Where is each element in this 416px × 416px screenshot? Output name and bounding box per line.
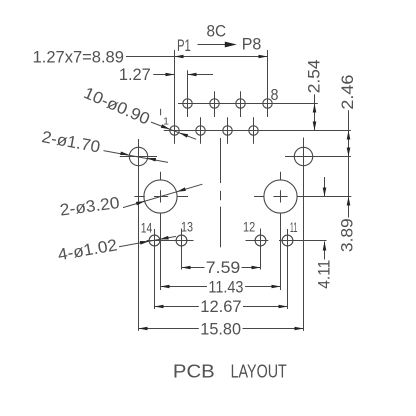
hole 14 vertical tick / ext for 12.67 — [154, 229, 156, 309]
left shield hole (Ø1.70) — [129, 147, 147, 165]
svg-text:11: 11 — [290, 219, 298, 235]
left Ø3.20 center mark — [160, 172, 162, 181]
pin P6 hole (Ø0.90) — [236, 99, 245, 108]
hole 12 vertical tick / ext for 7.59 — [260, 229, 262, 270]
dimension 7.59 — [182, 267, 205, 269]
dimension 12.67 — [155, 306, 199, 308]
hole 13 vertical tick / ext for 7.59 — [181, 229, 183, 270]
tick pin P5 — [227, 117, 229, 143]
ext line / tick pin P8 — [267, 50, 269, 117]
svg-text:3.89: 3.89 — [339, 218, 357, 252]
dimension 2.54 — [314, 94, 316, 130]
hole 14 (Ø1.02) — [149, 235, 160, 246]
pin P5 hole (Ø0.90) — [223, 126, 232, 135]
wire - bottom pin row centerline / ext for 2.46 — [164, 130, 351, 132]
left Ø1.70 vertical centerline / ext for 15.80 — [138, 139, 140, 331]
svg-text:15.80: 15.80 — [200, 320, 241, 338]
right Ø1.70 horizontal centerline / ext for 2.46-3.89 — [285, 156, 351, 158]
dimension 11.43 — [161, 286, 208, 288]
svg-text:8: 8 — [271, 87, 279, 104]
hole 12 (Ø1.02) — [255, 235, 266, 246]
leader 2-Ø1.70 to left shield hole — [104, 151, 169, 163]
pin P1 hole (Ø0.90) — [170, 126, 179, 135]
dimension 1.27 — [153, 74, 174, 76]
svg-text:2.46: 2.46 — [339, 75, 357, 110]
svg-text:PCB: PCB — [173, 361, 215, 382]
dimension 2.46 — [348, 110, 350, 156]
svg-text:1.27: 1.27 — [119, 66, 151, 84]
right Ø1.70 vertical centerline / ext for 15.80 — [303, 138, 305, 331]
right Ø3.20 center mark — [280, 172, 282, 181]
pin P7 hole (Ø0.90) — [249, 126, 258, 135]
dimension 1.27x7=8.89 — [126, 56, 268, 58]
right shield hole (Ø1.70) — [294, 147, 312, 165]
left Ø1.70 horizontal centerline — [120, 156, 157, 158]
svg-text:12: 12 — [243, 219, 255, 235]
svg-text:1: 1 — [163, 116, 169, 128]
leader 4-Ø1.02 to hole 14 — [119, 236, 176, 246]
svg-text:12.67: 12.67 — [200, 298, 241, 316]
svg-text:4.11: 4.11 — [315, 260, 333, 289]
leader 10-Ø0.90 to pin 1 — [151, 122, 196, 139]
svg-text:1.27x7=8.89: 1.27x7=8.89 — [33, 48, 124, 66]
svg-text:13: 13 — [181, 219, 193, 235]
pin P4 hole (Ø0.90) — [210, 99, 219, 108]
pin P2 hole (Ø0.90) — [183, 99, 192, 108]
tick pin P7 — [253, 117, 255, 143]
svg-text:LAYOUT: LAYOUT — [231, 361, 287, 382]
leader 2-Ø3.20 to left post hole — [123, 184, 202, 207]
tick pin P6 — [240, 91, 242, 117]
pin P8 hole (Ø0.90) — [263, 99, 272, 108]
ext line / tick pin P1 — [174, 50, 176, 144]
hole 13 (Ø1.02) — [176, 235, 187, 246]
svg-text:14: 14 — [141, 219, 153, 235]
pin P3 hole (Ø0.90) — [196, 126, 205, 135]
dimension 4.11 — [324, 177, 326, 197]
hole 11 vertical tick / ext for 12.67 — [287, 229, 289, 309]
left post hole (Ø3.20) — [144, 180, 177, 213]
tick pin P3 — [200, 117, 202, 143]
hole 11 (Ø1.02) — [282, 235, 293, 246]
wire - bottom holes row centerline left — [147, 240, 194, 242]
svg-text:11.43: 11.43 — [208, 278, 243, 296]
tick above label 1 — [160, 109, 162, 116]
svg-text:7.59: 7.59 — [206, 259, 241, 277]
dimension 3.89 — [348, 157, 350, 218]
arrow P1 to P8 — [198, 44, 229, 46]
svg-text:8C: 8C — [207, 23, 227, 41]
svg-text:P8: P8 — [242, 36, 262, 54]
ext line / tick pin P2 — [187, 70, 189, 117]
wire - top pin row centerline / ext for 2.54 — [178, 103, 318, 105]
svg-text:P1: P1 — [177, 36, 191, 55]
right post hole (Ø3.20) — [264, 180, 297, 213]
wire - hole 11 horizontal tick / ext for 4.11 — [279, 240, 327, 242]
tick pin P4 — [214, 91, 216, 117]
wire - hole 12 horizontal tick — [246, 240, 269, 242]
dimension 15.80 — [139, 328, 199, 330]
centerline (vertical dashed) — [220, 138, 222, 183]
svg-text:2.54: 2.54 — [305, 60, 323, 94]
